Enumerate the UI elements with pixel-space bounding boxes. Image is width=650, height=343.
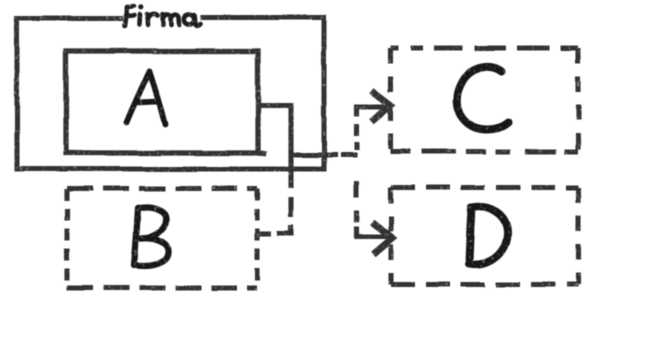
arrowhead into C (374, 93, 391, 120)
box C (dashed rectangle) (391, 48, 579, 152)
dashed vertical trunk x=356.5 (354, 124, 359, 222)
label Firma (125, 5, 201, 26)
dashed arrow to C (corner + shaft) (357, 107, 389, 117)
box D (dashed rectangle) (391, 188, 578, 285)
dashed arrow to D (corner + shaft) (357, 226, 393, 237)
arrowhead into D (375, 224, 393, 252)
solid branch segment at y=155 (291, 152, 335, 157)
letter A (127, 71, 166, 125)
dashed junction dash on y=155 (341, 152, 358, 157)
letter D (469, 207, 508, 264)
container Firma (outer solid rectangle) (17, 18, 324, 170)
box B (dashed rectangle) (67, 189, 257, 289)
letter B (134, 208, 169, 266)
dashed elbow into box B right side (257, 197, 291, 234)
box A (solid rectangle) (66, 51, 264, 154)
letter C (457, 67, 509, 130)
solid connector from A (elbow: right then down) (258, 106, 291, 185)
